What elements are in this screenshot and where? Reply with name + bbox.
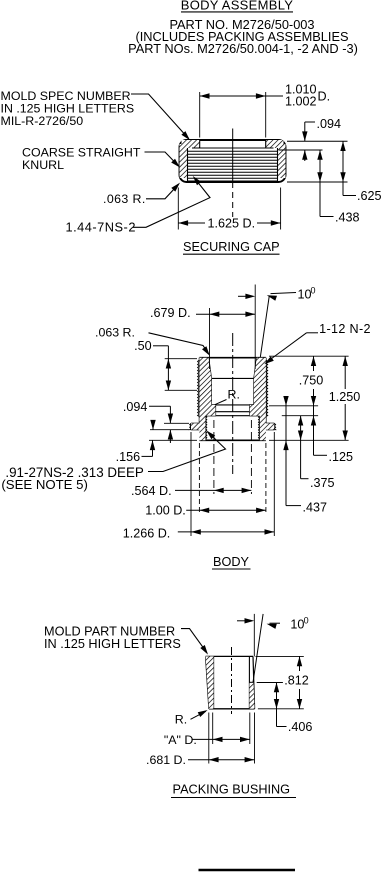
body below-flange right hatch: [260, 430, 266, 441]
dim .681 extension lines: [209, 713, 255, 764]
dim 1.250 line: [343, 356, 348, 440]
securing cap top band hatch left: [182, 140, 200, 148]
dim text 1.010: [285, 83, 317, 97]
title PACKING BUSHING: [171, 783, 296, 798]
dim A line: [192, 737, 250, 742]
svg-text:SECURING CAP: SECURING CAP: [183, 240, 280, 254]
bushing 10deg slant line: [253, 614, 263, 682]
flange top extension line: [164, 422, 189, 424]
svg-text:D.: D.: [318, 90, 331, 104]
svg-text:.437: .437: [303, 500, 328, 514]
svg-text:MIL-R-2726/50: MIL-R-2726/50: [1, 114, 84, 128]
svg-text:.625: .625: [357, 189, 382, 203]
svg-text:.094: .094: [123, 400, 148, 414]
body top extension line right: [269, 355, 349, 357]
title BODY ASSEMBLY: [181, 0, 294, 13]
svg-text:(SEE NOTE 5): (SEE NOTE 5): [1, 477, 87, 492]
cap top surface extension line: [287, 140, 348, 142]
dim .437 line: [283, 396, 301, 506]
svg-text:"A" D.: "A" D.: [164, 733, 197, 747]
leader .91-27NS-2: [148, 431, 226, 472]
securing cap outline: [180, 140, 286, 182]
svg-text:10: 10: [298, 288, 312, 302]
cap bottom extension line: [287, 181, 348, 183]
securing cap centerline: [232, 129, 234, 218]
leader 1-12 N-2: [264, 333, 318, 364]
svg-text:.375: .375: [310, 476, 335, 490]
dim .094 body lower arrow: [168, 430, 173, 443]
bushing 10deg leader: [267, 623, 280, 629]
svg-text:.750: .750: [299, 374, 324, 388]
dim text D cap top: [318, 90, 331, 104]
dim .156 lower arrow: [150, 440, 155, 452]
bushing bore right edge: [248, 656, 250, 708]
body bore left edge: [206, 358, 216, 416]
dim text 1.266 D.: [123, 526, 171, 540]
dim text 1.00 D.: [145, 504, 186, 518]
svg-text:BODY ASSEMBLY: BODY ASSEMBLY: [181, 0, 294, 13]
dim text .094 cap: [317, 117, 342, 131]
dim text .681 D.: [146, 753, 186, 767]
svg-text:0: 0: [304, 615, 309, 625]
svg-text:1.266 D.: 1.266 D.: [123, 526, 171, 540]
svg-text:.438: .438: [335, 211, 360, 225]
bushing mid extension line: [257, 682, 283, 684]
securing cap left wall inner line: [187, 148, 189, 182]
svg-text:.812: .812: [284, 673, 309, 687]
dim 1.625 extension lines: [178, 188, 280, 230]
svg-text:IN .125 HIGH LETTERS: IN .125 HIGH LETTERS: [44, 637, 181, 651]
body ledge extension line right: [269, 405, 318, 407]
dim A extension lines: [213, 713, 250, 745]
svg-text:BODY: BODY: [213, 555, 249, 569]
svg-text:.156: .156: [116, 450, 141, 464]
svg-text:.094: .094: [317, 117, 342, 131]
dim .564 line: [175, 488, 251, 493]
svg-text:PACKING BUSHING: PACKING BUSHING: [173, 783, 291, 797]
subtitle part nos: [128, 41, 358, 56]
body flange right hatch: [260, 423, 275, 429]
securing cap knurl hatch right wall: [278, 144, 286, 178]
body right wall hatch: [250, 358, 266, 424]
dim .50 extension lines: [165, 359, 197, 391]
bushing bottom extension line right: [258, 708, 304, 710]
dim 1.010-1.002 extension lines: [200, 92, 266, 138]
svg-text:1-12 N-2: 1-12 N-2: [319, 322, 371, 336]
securing cap inner ceiling line: [192, 147, 274, 149]
dim text .564 D.: [131, 484, 172, 498]
dim text .625: [357, 189, 382, 203]
dim text .094 body: [123, 400, 148, 414]
bushing top face: [206, 655, 253, 657]
securing cap top band hatch right: [266, 140, 284, 148]
dim .812 line: [297, 656, 302, 708]
leader MOLD SPEC: [131, 94, 190, 140]
securing cap knurl hatch left wall: [180, 144, 188, 178]
dim .375 line: [298, 416, 309, 479]
body bore taper line: [211, 377, 254, 379]
dim text 1.002: [285, 95, 317, 109]
svg-text:.679 D.: .679 D.: [150, 306, 191, 320]
leader R. body: [215, 400, 227, 405]
body centerline: [232, 333, 234, 474]
label MOLD PART NUMBER: [44, 625, 181, 651]
dim 1.010-1.002 line: [200, 93, 283, 98]
label R. body: [228, 388, 240, 402]
dim .681 line: [188, 757, 254, 762]
body top face line: [199, 357, 266, 359]
dim .679 line: [196, 312, 255, 317]
securing cap hole left edge: [199, 140, 201, 148]
label .91-27NS-2: [1, 465, 144, 492]
dim text 1.625 D.: [207, 217, 255, 231]
flange bottom extension line: [150, 429, 189, 431]
bushing 10deg horizontal arrow: [237, 618, 254, 623]
body 10deg horizontal arrow: [238, 294, 255, 299]
dim .750 and .125 line: [311, 356, 327, 455]
subtitle part no: [169, 17, 314, 32]
label 1-12 N-2: [319, 322, 371, 336]
bushing 10deg vertical line: [253, 614, 255, 657]
bushing centerline: [231, 647, 233, 714]
body R ledge line: [211, 404, 254, 406]
body bottom extension line right: [269, 439, 349, 441]
bushing left outer edge: [206, 656, 209, 708]
body thread ledge extension line right: [282, 415, 318, 417]
bushing right outer edge: [253, 656, 255, 708]
bushing right wall hatch: [249, 682, 254, 709]
body left wall hatch: [199, 358, 215, 424]
svg-text:.681 D.: .681 D.: [146, 753, 186, 767]
body thread bore left edge: [206, 416, 207, 441]
leader MOLD PART NUMBER: [181, 629, 208, 655]
body thread ledge line: [206, 415, 260, 417]
svg-text:PART NOs. M2726/50.004-1, -2 A: PART NOs. M2726/50.004-1, -2 AND -3): [128, 41, 358, 56]
svg-text:.50: .50: [134, 339, 152, 353]
svg-text:KNURL: KNURL: [22, 158, 64, 172]
svg-text:1.250: 1.250: [329, 390, 361, 404]
label .063 R. body: [95, 326, 135, 340]
securing cap internal thread lines: [188, 151, 278, 181]
body left wall outer edge: [198, 358, 200, 424]
svg-text:R.: R.: [228, 388, 240, 402]
body 10deg slant line: [260, 296, 269, 358]
svg-text:1.44-7NS-2: 1.44-7NS-2: [66, 219, 136, 234]
body 10deg leader: [267, 293, 296, 301]
svg-text:10: 10: [290, 617, 304, 631]
body bore right edge: [250, 358, 260, 416]
dim text .125: [329, 450, 354, 464]
dim text .156: [116, 450, 141, 464]
dim text .438: [335, 211, 360, 225]
dim .438 line: [317, 150, 333, 217]
bushing right wall step line: [249, 681, 253, 683]
svg-text:1.625 D.: 1.625 D.: [207, 217, 255, 231]
title SECURING CAP: [183, 240, 280, 254]
body bottom extension line left: [149, 439, 197, 441]
svg-text:1.00 D.: 1.00 D.: [145, 504, 186, 518]
dim text .437: [303, 500, 328, 514]
dim .406 line: [274, 683, 287, 727]
leader .063 R. cap: [146, 183, 180, 199]
dim 1.00 extension lines: [199, 443, 266, 515]
leader COARSE STRAIGHT KNURL: [145, 152, 181, 168]
body flange right: [266, 423, 276, 429]
body flange left: [190, 423, 200, 429]
dim 1.266 line: [178, 529, 274, 534]
label 10deg body: [298, 286, 316, 302]
dim text .406: [288, 720, 313, 734]
body flange left hatch: [191, 423, 206, 429]
dim text .812: [284, 673, 309, 687]
dim text .679 D.: [150, 306, 191, 320]
bushing bottom face: [209, 708, 255, 710]
body .564 bottom line: [216, 411, 250, 413]
securing cap hole right edge: [265, 140, 267, 148]
label MOLD SPEC NUMBER: [1, 89, 135, 128]
leader R. bushing: [191, 710, 208, 719]
dim .094 cap bracket: [302, 122, 315, 141]
label .063 R. cap: [103, 192, 146, 206]
securing cap right wall inner line: [277, 148, 279, 182]
bushing bore left edge: [213, 656, 215, 708]
label COARSE STRAIGHT KNURL: [22, 145, 141, 172]
svg-text:.063 R.: .063 R.: [95, 326, 135, 340]
svg-text:0: 0: [311, 286, 316, 296]
svg-text:.125: .125: [329, 450, 354, 464]
svg-text:.063 R.: .063 R.: [103, 192, 146, 206]
bushing left wall hatch: [206, 656, 214, 708]
cap step extension line: [279, 149, 323, 151]
dim text .375: [310, 476, 335, 490]
dim .625 line: [340, 141, 356, 195]
subtitle includes: [135, 29, 348, 44]
dim text .750: [299, 374, 324, 388]
bushing top extension line right: [256, 655, 304, 657]
dim .094 cap lower arrow: [302, 150, 307, 161]
body bottom face line: [199, 439, 266, 441]
dim text .50: [134, 339, 152, 353]
dim text 1.250: [329, 390, 361, 404]
dim 1.625 line: [178, 220, 280, 225]
bottom border line: [199, 869, 296, 872]
label 1.44-7NS-2: [66, 219, 136, 234]
dim .564 extension lines: [214, 420, 252, 494]
svg-text:1.002: 1.002: [285, 95, 317, 109]
svg-text:.406: .406: [288, 720, 313, 734]
body right wall outer edge: [266, 358, 268, 424]
dim text A D.: [164, 733, 197, 747]
leader 1.44-7NS-2: [133, 176, 210, 227]
label R. bushing: [175, 712, 187, 726]
dim .50 bracket: [153, 346, 168, 359]
dim .50 arrows: [166, 359, 171, 391]
dim .094 body bracket: [149, 406, 173, 423]
title BODY: [212, 555, 251, 569]
dim .156 upper arrow: [150, 420, 155, 430]
svg-text:R.: R.: [175, 712, 187, 726]
dim .156 bracket: [142, 452, 153, 456]
label 10deg bushing: [290, 615, 308, 631]
body thread bore right edge: [259, 416, 260, 441]
dim 1.00 line: [186, 508, 266, 513]
leader .063 R. body: [149, 333, 210, 356]
dim .679 extension lines: [210, 285, 256, 370]
dim 1.266 extension lines: [191, 432, 274, 536]
body below-flange left hatch: [199, 430, 205, 441]
svg-text:.564 D.: .564 D.: [131, 484, 172, 498]
